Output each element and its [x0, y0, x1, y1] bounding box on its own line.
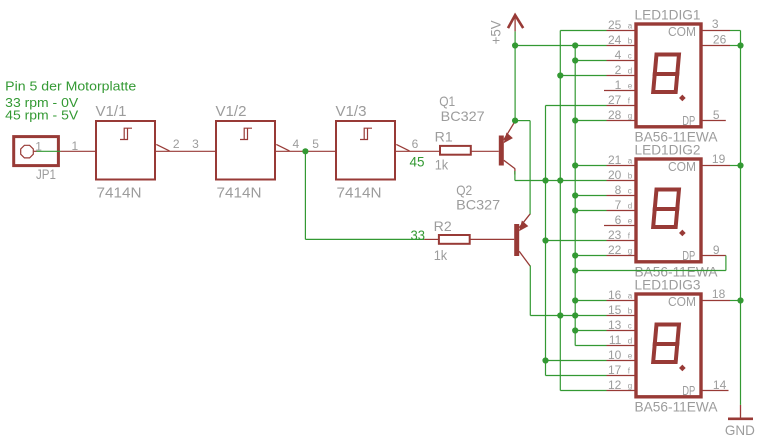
svg-text:6: 6 — [615, 213, 622, 227]
svg-text:7414N: 7414N — [217, 185, 262, 202]
svg-text:10: 10 — [608, 348, 622, 362]
svg-text:4: 4 — [293, 137, 300, 151]
wire V1/1 out to V1/2 in — [156, 150, 216, 152]
svg-text:d: d — [628, 337, 632, 346]
svg-text:a: a — [628, 292, 633, 301]
wire segment f2 — [546, 240, 607, 242]
junction on pin 21 wire — [572, 162, 578, 168]
svg-text:14: 14 — [713, 378, 727, 392]
pin 8 (c) of LED1DIG2 — [607, 195, 636, 197]
svg-text:1k: 1k — [435, 157, 449, 173]
op-amp V1/1 (7414N schmitt inverter) — [96, 121, 155, 180]
svg-text:LED1DIG3: LED1DIG3 — [635, 277, 701, 293]
junction on pin 15 wire — [572, 312, 578, 318]
wire segment g3 — [560, 390, 606, 392]
svg-text:3: 3 — [192, 137, 199, 151]
wire segment b1 — [515, 45, 606, 47]
svg-text:b: b — [628, 172, 633, 181]
pin 11 (d) of LED1DIG3 — [607, 345, 636, 347]
node junction at V1/2 output — [302, 148, 308, 154]
wire segment c2 — [575, 195, 606, 197]
junction on pin 24 wire — [512, 42, 518, 48]
pin 18 COM of LED1DIG3 — [702, 300, 730, 302]
wire bus V5 — [574, 46, 576, 346]
wire R1 to Q1 base — [471, 150, 499, 152]
svg-text:d: d — [628, 67, 632, 76]
svg-text:7: 7 — [615, 198, 622, 212]
junction on pin 24 wire — [572, 42, 578, 48]
pin 10 (e) of LED1DIG3 — [607, 360, 636, 362]
pin 27 (f) of LED1DIG1 — [607, 105, 636, 107]
svg-text:e: e — [628, 352, 633, 361]
svg-text:13: 13 — [608, 318, 622, 332]
svg-text:5: 5 — [312, 137, 319, 151]
pin 26 of LED1DIG1 — [702, 45, 730, 47]
wire COM bus to GND — [740, 31, 742, 405]
wire +5V branch to Q2 emitter — [515, 120, 530, 122]
svg-text:+5V: +5V — [488, 20, 504, 45]
junction on pin 16 wire — [572, 297, 578, 303]
wire V1/2 out to V1/3 in — [276, 150, 336, 152]
svg-text:d: d — [628, 202, 632, 211]
svg-text:BA56-11EWA: BA56-11EWA — [635, 398, 719, 414]
junction on pin 20 wire — [557, 177, 563, 183]
svg-text:g: g — [628, 382, 632, 391]
svg-text:Pin 5 der Motorplatte: Pin 5 der Motorplatte — [5, 79, 136, 94]
pin 23 (f) of LED1DIG2 — [607, 240, 636, 242]
svg-text:9: 9 — [713, 243, 720, 257]
svg-text:R1: R1 — [435, 129, 453, 145]
svg-text:COM: COM — [668, 159, 696, 174]
wire segment e3 — [546, 360, 607, 362]
wire segment a3 — [575, 300, 606, 302]
svg-text:COM: COM — [668, 294, 696, 309]
pin 13 (c) of LED1DIG3 — [607, 330, 636, 332]
svg-text:25: 25 — [608, 18, 622, 32]
svg-text:26: 26 — [713, 32, 727, 46]
junction on pin 2 wire — [557, 72, 563, 78]
svg-text:b: b — [628, 37, 633, 46]
svg-text:1: 1 — [72, 139, 79, 153]
junction on pin 13 wire — [572, 327, 578, 333]
wire segment f3 — [546, 375, 607, 377]
ground GND — [740, 405, 742, 419]
junction +5V / Q1 emitter — [512, 118, 518, 124]
wire V1/2 junction down to R2 — [304, 151, 306, 239]
pin 12 (g) of LED1DIG3 — [607, 390, 636, 392]
junction on pin 7 wire — [572, 207, 578, 213]
svg-text:5: 5 — [713, 108, 720, 122]
svg-text:2: 2 — [173, 137, 180, 151]
pin 20 (b) of LED1DIG2 — [607, 180, 636, 182]
resistor R2 — [424, 238, 439, 240]
wire segment g2 — [575, 255, 606, 257]
svg-text:BC327: BC327 — [441, 108, 485, 124]
pin 9 DP of LED1DIG2 — [702, 255, 726, 257]
wire segment c3 — [575, 330, 606, 332]
wire segment a1 — [560, 30, 606, 32]
pin 6 (e) of LED1DIG2 — [604, 225, 635, 227]
svg-text:27: 27 — [608, 93, 622, 107]
svg-text:b: b — [628, 307, 633, 316]
wire segment c1 — [575, 60, 606, 62]
svg-text:V1/1: V1/1 — [96, 103, 127, 120]
svg-text:GND: GND — [725, 422, 755, 438]
svg-text:7414N: 7414N — [337, 185, 382, 202]
svg-text:e: e — [628, 82, 633, 91]
svg-text:4: 4 — [615, 48, 622, 62]
svg-text:45: 45 — [410, 153, 425, 169]
svg-text:33: 33 — [411, 227, 426, 243]
svg-text:22: 22 — [608, 243, 622, 257]
junction on pin 28 wire — [572, 117, 578, 123]
wire Q2 collector down — [529, 266, 531, 316]
resistor R1 — [440, 146, 471, 155]
svg-text:8: 8 — [615, 183, 622, 197]
pin 4 (c) of LED1DIG1 — [607, 60, 636, 62]
wire JP1 to V1/1 — [37, 150, 61, 152]
wire segment b3 — [530, 315, 606, 317]
wire segment b2 — [515, 180, 607, 182]
svg-text:24: 24 — [608, 33, 622, 47]
svg-text:LED1DIG2: LED1DIG2 — [635, 142, 701, 158]
svg-text:BC327: BC327 — [456, 197, 500, 213]
wire segment d2 — [575, 210, 606, 212]
wire bus V3 — [545, 106, 547, 376]
svg-text:R2: R2 — [434, 218, 452, 234]
svg-text:20: 20 — [608, 168, 622, 182]
pin 21 (a) of LED1DIG2 — [607, 165, 636, 167]
svg-text:1: 1 — [615, 78, 622, 92]
pin 24 (b) of LED1DIG1 — [607, 45, 636, 47]
junction on pin 4 wire — [572, 57, 578, 63]
+5V supply symbol — [508, 15, 523, 28]
junction DP2 on V5 — [572, 267, 578, 273]
wire V1/3 out to R1 — [396, 150, 440, 152]
svg-text:e: e — [628, 217, 633, 226]
connector JP1 — [14, 137, 59, 166]
svg-text:2: 2 — [615, 63, 622, 77]
pin 7 (d) of LED1DIG2 — [607, 210, 636, 212]
svg-text:g: g — [628, 247, 632, 256]
pin 19 COM of LED1DIG2 — [702, 165, 730, 167]
junction COM bus — [737, 297, 743, 303]
junction COM bus — [737, 42, 743, 48]
digit 8 of LED1DIG2 — [653, 190, 685, 237]
junction on pin 10 wire — [542, 357, 548, 363]
pin 2 (d) of LED1DIG1 — [607, 75, 636, 77]
transistor Q2 (BC327 PNP) — [514, 224, 519, 256]
svg-text:18: 18 — [712, 287, 726, 301]
pin 14 DP of LED1DIG3 — [702, 390, 729, 392]
op-amp V1/3 (7414N schmitt inverter) — [336, 121, 395, 180]
svg-text:c: c — [628, 322, 632, 331]
digit 8 of LED1DIG1 — [653, 55, 685, 102]
svg-text:12: 12 — [608, 378, 622, 392]
pin 28 (g) of LED1DIG1 — [607, 120, 636, 122]
pin 1 (e) of LED1DIG1 — [604, 90, 635, 92]
junction on pin 8 wire — [572, 192, 578, 198]
svg-text:g: g — [628, 112, 632, 121]
svg-text:JP1: JP1 — [36, 166, 56, 182]
svg-text:45 rpm - 5V: 45 rpm - 5V — [5, 108, 78, 123]
wire DP2 to bus V5 — [725, 256, 727, 271]
wire segment d3 — [575, 345, 606, 347]
wire segment g1 — [575, 120, 606, 122]
svg-text:DP: DP — [682, 248, 695, 263]
pin 3 COM of LED1DIG1 — [702, 30, 730, 32]
digit 8 of LED1DIG3 — [653, 325, 685, 372]
svg-text:c: c — [628, 52, 632, 61]
wire bus V4 — [559, 31, 561, 391]
wire segment a2 — [575, 165, 606, 167]
svg-text:V1/2: V1/2 — [216, 103, 247, 120]
svg-text:1k: 1k — [434, 247, 448, 263]
pin 5 DP of LED1DIG1 — [702, 120, 726, 122]
wire segment f1 — [546, 105, 607, 107]
svg-text:11: 11 — [609, 333, 622, 347]
svg-text:19: 19 — [712, 152, 726, 166]
wire +5V vertical bus — [514, 31, 516, 120]
svg-text:V1/3: V1/3 — [336, 103, 367, 120]
svg-text:COM: COM — [668, 24, 696, 39]
svg-text:c: c — [628, 187, 632, 196]
svg-text:a: a — [628, 157, 633, 166]
wire segment d1 — [560, 75, 606, 77]
junction on pin 15 wire — [557, 312, 563, 318]
svg-text:Q1: Q1 — [439, 93, 455, 109]
svg-text:21: 21 — [608, 153, 622, 167]
svg-text:DP: DP — [682, 383, 695, 398]
junction on pin 23 wire — [542, 237, 548, 243]
transistor Q1 (BC327 PNP) — [499, 136, 504, 166]
svg-text:28: 28 — [608, 108, 622, 122]
wire R2 to Q2 base — [470, 238, 515, 240]
junction on pin 20 wire — [542, 177, 548, 183]
pin 15 (b) of LED1DIG3 — [607, 315, 636, 317]
pin 25 (a) of LED1DIG1 — [607, 30, 636, 32]
svg-text:3: 3 — [712, 17, 719, 31]
svg-text:6: 6 — [412, 137, 419, 151]
pin 22 (g) of LED1DIG2 — [607, 255, 636, 257]
svg-text:23: 23 — [608, 228, 622, 242]
pin 17 (f) of LED1DIG3 — [607, 375, 636, 377]
svg-text:a: a — [628, 22, 633, 31]
wire Q1 collector down — [514, 171, 516, 181]
svg-text:LED1DIG1: LED1DIG1 — [635, 7, 701, 23]
svg-text:17: 17 — [608, 363, 622, 377]
svg-text:7414N: 7414N — [97, 185, 142, 202]
svg-text:15: 15 — [608, 303, 622, 317]
op-amp V1/2 (7414N schmitt inverter) — [216, 121, 275, 180]
svg-text:16: 16 — [608, 288, 622, 302]
pin 16 (a) of LED1DIG3 — [607, 300, 636, 302]
svg-text:DP: DP — [682, 113, 695, 128]
junction on pin 22 wire — [572, 252, 578, 258]
junction COM bus — [737, 162, 743, 168]
